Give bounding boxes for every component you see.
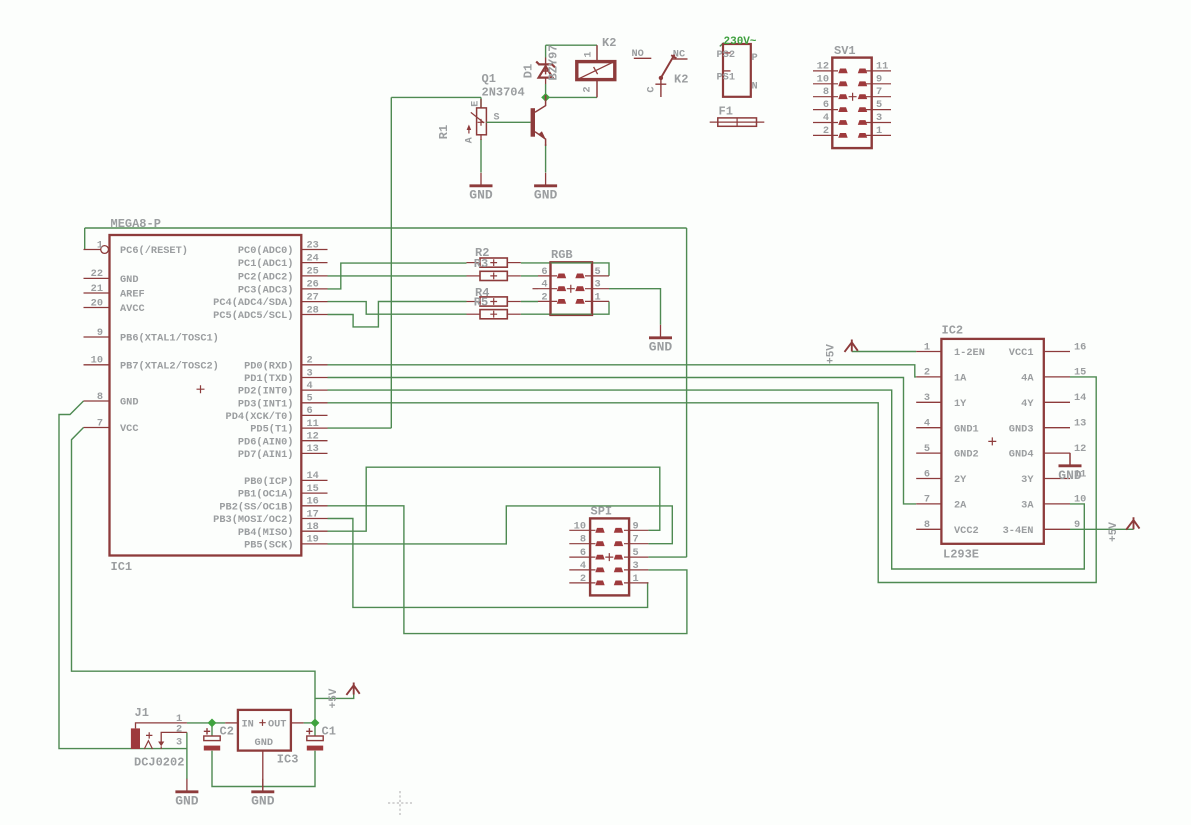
svg-text:230V~: 230V~	[724, 36, 757, 48]
svg-text:27: 27	[307, 291, 319, 303]
svg-text:K2: K2	[602, 36, 616, 50]
ground GND under R1	[480, 173, 482, 187]
sheet origin crosshair	[388, 791, 412, 815]
svg-text:OUT: OUT	[268, 718, 287, 730]
wire R4 output overlay on RGB bottom edge	[551, 313, 593, 315]
J1 switch contact triangle	[158, 742, 164, 747]
svg-text:5: 5	[595, 266, 601, 278]
svg-text:N: N	[752, 81, 758, 93]
svg-text:16: 16	[307, 496, 319, 508]
wire collector node horizontal to relay pin 2	[546, 96, 597, 98]
IC1 origin cross	[197, 385, 205, 393]
svg-text:22: 22	[91, 268, 103, 280]
svg-text:25: 25	[307, 266, 319, 278]
wire R4 output along RGB bottom to pin 1	[521, 301, 609, 314]
ground GND under Q1	[545, 173, 547, 187]
svg-text:VCC2: VCC2	[954, 525, 979, 537]
svg-text:GND2: GND2	[954, 449, 979, 461]
svg-text:PD6(AIN0): PD6(AIN0)	[238, 436, 294, 448]
svg-text:13: 13	[1074, 418, 1086, 430]
svg-text:Q1: Q1	[482, 72, 496, 86]
svg-text:BZY97: BZY97	[547, 44, 561, 80]
relay coil tick	[594, 67, 598, 74]
svg-text:VCC: VCC	[120, 423, 139, 435]
SPI origin cross	[605, 553, 613, 561]
svg-text:3: 3	[307, 367, 313, 379]
J1 origin cross	[146, 732, 152, 738]
IC3 OUT pin stub	[291, 722, 304, 724]
resistor R4	[467, 301, 481, 303]
svg-text:1: 1	[876, 125, 882, 137]
ground GND under J1	[186, 779, 188, 793]
svg-text:20: 20	[91, 297, 103, 309]
capacitor C2 plates	[204, 736, 220, 741]
svg-text:5: 5	[924, 443, 930, 455]
svg-text:VCC1: VCC1	[1009, 347, 1034, 359]
svg-text:PD2(INT0): PD2(INT0)	[238, 386, 294, 398]
svg-text:GND: GND	[534, 188, 558, 203]
svg-text:R1: R1	[437, 125, 451, 139]
wire RESET net top horizontal	[85, 227, 687, 229]
svg-text:PS1: PS1	[717, 72, 736, 84]
IC IC2 body	[941, 339, 1043, 544]
wire R2 output overlay on RGB top edge	[551, 262, 593, 264]
svg-text:DCJ0202: DCJ0202	[134, 756, 184, 770]
RGB origin cross	[567, 285, 575, 293]
svg-text:7: 7	[97, 417, 103, 429]
svg-text:9: 9	[97, 327, 103, 339]
K2 switch armature	[661, 55, 677, 78]
svg-text:GND: GND	[120, 274, 139, 286]
junction dot OUT/C1/+5V node	[311, 719, 320, 728]
svg-text:PC6(/RESET): PC6(/RESET)	[120, 245, 188, 257]
wire RESET net vertical to SPI pin 5	[686, 228, 688, 557]
R1 origin cross	[478, 119, 485, 126]
PS pin PS1 tick	[723, 70, 731, 72]
svg-text:3: 3	[176, 736, 182, 748]
wire PC2 net pin 25 to R3	[328, 275, 467, 277]
relay pin 2 lead	[596, 81, 598, 98]
wire PB3 net to SPI pin 1	[328, 519, 649, 608]
svg-text:2: 2	[823, 125, 829, 137]
svg-text:GND4: GND4	[1009, 449, 1034, 461]
IC3 IN pin stub	[225, 722, 238, 724]
svg-text:PB1(OC1A): PB1(OC1A)	[238, 489, 294, 501]
svg-text:11: 11	[876, 60, 888, 72]
wire RESET net into SPI pin 5	[648, 556, 686, 558]
svg-text:D1: D1	[522, 64, 536, 78]
capacitor C1 plates	[307, 736, 323, 741]
svg-text:24: 24	[307, 252, 319, 264]
svg-text:18: 18	[307, 521, 319, 533]
connector J1 pin 2 lead	[161, 732, 187, 741]
K2 switch NO terminal	[634, 57, 652, 59]
resistor R2	[467, 262, 481, 264]
svg-text:1A: 1A	[954, 373, 967, 385]
wire C2 top lead	[211, 723, 213, 736]
svg-text:3: 3	[633, 560, 639, 572]
svg-text:J1: J1	[135, 706, 149, 720]
svg-text:A: A	[465, 137, 476, 143]
J1 center-pin contact	[144, 741, 152, 749]
svg-text:3A: 3A	[1021, 500, 1034, 512]
svg-text:2A: 2A	[954, 500, 967, 512]
svg-text:1: 1	[924, 341, 930, 353]
svg-text:+5V: +5V	[826, 344, 838, 364]
svg-text:7: 7	[876, 86, 882, 98]
svg-text:1: 1	[595, 291, 601, 303]
wire R2 output along RGB top to pin 5	[521, 263, 609, 276]
svg-text:+5V: +5V	[1108, 522, 1120, 542]
svg-text:SPI: SPI	[591, 505, 613, 519]
svg-text:AVCC: AVCC	[120, 303, 145, 315]
wire +5V branch at regulator	[315, 694, 354, 698]
svg-text:PD4(XCK/T0): PD4(XCK/T0)	[226, 411, 294, 423]
svg-text:4A: 4A	[1021, 373, 1034, 385]
svg-text:GND: GND	[251, 794, 275, 809]
svg-text:5: 5	[633, 547, 639, 559]
svg-text:IC1: IC1	[111, 560, 133, 574]
power +5V at IC2 pin 1	[845, 340, 858, 352]
svg-text:3: 3	[924, 392, 930, 404]
junction dot C2/IN node	[208, 719, 217, 728]
svg-text:L293E: L293E	[943, 548, 979, 562]
connector SPI box	[590, 518, 629, 595]
svg-text:3Y: 3Y	[1021, 474, 1034, 486]
IC2 pin stubs	[916, 351, 941, 353]
svg-text:23: 23	[307, 239, 319, 251]
svg-text:GND: GND	[175, 794, 199, 809]
wire PB5 net to SPI pin 7	[328, 506, 673, 544]
svg-text:8: 8	[97, 391, 103, 403]
svg-text:4: 4	[924, 418, 930, 430]
svg-text:4Y: 4Y	[1021, 398, 1034, 410]
svg-text:5: 5	[876, 99, 882, 111]
svg-text:9: 9	[876, 73, 882, 85]
IC U1 MEGA8-P body and pin stubs	[110, 235, 302, 556]
transistor Q1 base bar	[531, 108, 535, 137]
svg-text:GND: GND	[255, 737, 274, 749]
C2 polarity mark	[204, 728, 210, 734]
svg-text:4: 4	[580, 560, 586, 572]
wire T1 net vertical riser	[390, 97, 392, 428]
svg-text:C1: C1	[322, 725, 336, 739]
IC2 pin 12 ground lead	[1069, 453, 1071, 465]
svg-text:PD7(AIN1): PD7(AIN1)	[238, 449, 294, 461]
svg-text:PB6(XTAL1/TOSC1): PB6(XTAL1/TOSC1)	[120, 333, 219, 345]
connector SV1 box	[832, 58, 871, 149]
R1 wiper diagonal	[471, 112, 484, 123]
wire T1 net to R1 top	[391, 96, 481, 98]
relay pin 1 lead	[596, 45, 598, 61]
svg-text:26: 26	[307, 279, 319, 291]
svg-text:8: 8	[924, 519, 930, 531]
svg-text:GND1: GND1	[954, 423, 979, 435]
svg-text:3-4EN: 3-4EN	[1003, 525, 1034, 537]
wire R1 E pin drop	[480, 97, 482, 108]
svg-text:1: 1	[583, 51, 595, 57]
IC3 GND pin lead	[262, 751, 264, 791]
wire 230V~ stub at PS connector	[720, 43, 724, 47]
PS pin PS2 tick	[723, 52, 731, 54]
svg-text:15: 15	[1074, 367, 1086, 379]
svg-text:10: 10	[1074, 494, 1086, 506]
connector J1 barrel	[131, 728, 140, 749]
ground GND at RGB pin 3	[660, 325, 662, 339]
svg-text:K2: K2	[674, 73, 688, 87]
svg-text:8: 8	[580, 534, 586, 546]
svg-text:F1: F1	[719, 105, 733, 119]
wire C2 bottom to ground rail	[212, 751, 315, 787]
svg-text:NO: NO	[632, 48, 644, 60]
wire RESET net riser from IC1 pin 1	[84, 228, 86, 250]
relay coil K2 box	[577, 62, 615, 80]
svg-text:13: 13	[307, 443, 319, 455]
svg-text:2Y: 2Y	[954, 474, 967, 486]
R1 arrow	[468, 128, 470, 134]
svg-text:PD5(T1): PD5(T1)	[250, 424, 293, 436]
K2 switch C terminal	[655, 78, 666, 97]
svg-text:4: 4	[823, 112, 829, 124]
svg-text:1: 1	[97, 239, 103, 251]
svg-text:R5: R5	[474, 295, 488, 309]
svg-text:15: 15	[307, 483, 319, 495]
svg-text:RGB: RGB	[551, 248, 573, 262]
svg-text:NC: NC	[673, 49, 685, 61]
power +5V at regulator output	[346, 683, 359, 695]
IC2 origin cross	[988, 437, 996, 445]
svg-text:8: 8	[823, 86, 829, 98]
D1 origin cross	[542, 68, 549, 75]
svg-text:PC2(ADC2): PC2(ADC2)	[238, 272, 294, 284]
Q1 emitter arrowhead	[539, 131, 546, 139]
wire Q1 emitter to GND	[545, 144, 547, 173]
svg-text:12: 12	[307, 431, 319, 443]
wire Q1 base net	[486, 121, 530, 123]
wire PD1 net to IC2 2A	[328, 378, 917, 504]
svg-text:1Y: 1Y	[954, 398, 967, 410]
svg-text:PB2(SS/OC1B): PB2(SS/OC1B)	[219, 501, 293, 513]
wire PC5 net pin 28 to R5 (upper box)	[328, 302, 467, 327]
K2 switch pivot dot	[659, 76, 663, 80]
resistor R3	[467, 275, 481, 277]
svg-text:12: 12	[817, 60, 829, 72]
wire RGB pin 3 to ground	[609, 289, 661, 325]
svg-text:21: 21	[91, 283, 103, 295]
wire T1 net from IC1 pin 11	[328, 427, 392, 429]
diode D1 triangle	[539, 66, 553, 77]
svg-text:1-2EN: 1-2EN	[954, 347, 985, 359]
connector J1 pin 1 lead	[136, 723, 187, 729]
svg-text:2: 2	[176, 724, 182, 736]
svg-text:GND: GND	[120, 397, 139, 409]
svg-text:2: 2	[582, 86, 594, 92]
relay coil diagonal	[577, 61, 615, 79]
wire GND net from IC1 pin 8	[59, 401, 187, 749]
svg-text:11: 11	[307, 418, 319, 430]
wire +5V stub at IC2 pin 9	[1133, 528, 1135, 529]
svg-text:IC3: IC3	[277, 753, 299, 767]
svg-text:16: 16	[1074, 341, 1086, 353]
svg-text:PS2: PS2	[717, 49, 736, 61]
wire IC2 pin 9 to +5V	[1070, 528, 1134, 530]
connector RGB box	[551, 262, 593, 315]
wire J1 pin 1 to IC3 IN	[187, 722, 225, 724]
resistor R1 body	[477, 108, 487, 135]
fuse F1 box	[718, 118, 757, 126]
SPI pin rows and pads	[569, 529, 595, 531]
svg-text:PB5(SCK): PB5(SCK)	[244, 540, 293, 552]
Q1 emitter lead	[535, 132, 546, 146]
svg-text:2: 2	[580, 573, 586, 585]
svg-text:E: E	[471, 101, 482, 107]
R1 A pin stub	[480, 135, 482, 140]
wire PD2 net to IC2 3A	[328, 390, 1085, 569]
svg-text:PB0(ICP): PB0(ICP)	[244, 476, 293, 488]
svg-text:P: P	[752, 52, 758, 64]
svg-text:7: 7	[633, 534, 639, 546]
svg-text:C2: C2	[220, 725, 234, 739]
svg-text:PD3(INT1): PD3(INT1)	[238, 398, 294, 410]
svg-text:IC2: IC2	[942, 324, 964, 338]
wire top link D1 to relay pin 1	[546, 44, 597, 46]
svg-text:AREF: AREF	[120, 289, 145, 301]
RGB pin rows and pads	[538, 275, 557, 277]
svg-text:3: 3	[876, 112, 882, 124]
svg-text:PD0(RXD): PD0(RXD)	[244, 360, 293, 372]
svg-text:9: 9	[633, 520, 639, 532]
svg-text:PC4(ADC4/SDA): PC4(ADC4/SDA)	[213, 297, 293, 309]
svg-text:12: 12	[1074, 443, 1086, 455]
svg-text:PC5(ADC5/SCL): PC5(ADC5/SCL)	[213, 310, 293, 322]
svg-text:6: 6	[307, 405, 313, 417]
svg-text:C: C	[646, 86, 658, 92]
svg-text:10: 10	[817, 73, 829, 85]
svg-text:14: 14	[307, 470, 319, 482]
svg-text:+5V: +5V	[328, 688, 340, 708]
svg-text:1: 1	[633, 573, 639, 585]
svg-text:7: 7	[924, 494, 930, 506]
svg-text:4: 4	[541, 279, 547, 291]
svg-text:PB3(MOSI/OC2): PB3(MOSI/OC2)	[213, 514, 293, 526]
svg-text:2: 2	[924, 367, 930, 379]
wire PC3 net from pin 26	[328, 263, 467, 289]
svg-text:2: 2	[541, 291, 547, 303]
fuse F1 center bar	[736, 118, 738, 126]
power +5V at IC2 pin 9	[1126, 517, 1139, 529]
K2 switch NC terminal	[673, 58, 688, 60]
connector PS box	[723, 44, 751, 97]
wire PB4 net to SPI pin 9	[328, 467, 660, 531]
resistor R5	[467, 313, 481, 315]
SV1 origin cross	[849, 93, 857, 101]
IC IC3 regulator body	[238, 710, 291, 751]
svg-text:SV1: SV1	[834, 44, 856, 58]
IC3 origin cross	[259, 720, 265, 726]
svg-text:PC3(ADC3): PC3(ADC3)	[238, 285, 294, 297]
wire C1 top lead	[314, 723, 316, 736]
svg-text:14: 14	[1074, 392, 1086, 404]
svg-text:3: 3	[595, 279, 601, 291]
svg-text:10: 10	[574, 520, 586, 532]
svg-text:28: 28	[307, 304, 319, 316]
svg-text:6: 6	[541, 266, 547, 278]
SV1 pin rows and pads	[813, 70, 838, 72]
wire PB2 net to SPI pin 3	[328, 506, 687, 634]
C1 polarity mark	[306, 728, 312, 734]
svg-text:6: 6	[924, 468, 930, 480]
fuse F1 through line	[710, 121, 765, 123]
wire R5 output to RGB pin 2	[521, 301, 538, 303]
D1 cathode stub	[545, 58, 547, 65]
svg-text:PC1(ADC1): PC1(ADC1)	[238, 258, 294, 270]
ground GND under IC3	[262, 779, 264, 793]
svg-text:GND: GND	[1058, 468, 1082, 483]
svg-text:2: 2	[307, 355, 313, 367]
wire +5V to IC2 pin 1	[852, 351, 916, 353]
wire PD0 net to IC2 1A	[328, 365, 917, 377]
wire J1 ground tie	[186, 732, 188, 779]
svg-text:2N3704: 2N3704	[482, 86, 525, 100]
svg-text:6: 6	[580, 547, 586, 559]
wire IC3 OUT to C1 node	[304, 722, 315, 724]
svg-text:GND: GND	[649, 340, 673, 355]
ground GND at IC2 pin 12	[1069, 453, 1071, 467]
svg-text:6: 6	[823, 99, 829, 111]
svg-text:MEGA8-P: MEGA8-P	[111, 217, 161, 231]
svg-text:PC0(ADC0): PC0(ADC0)	[238, 245, 294, 257]
D1 cathode bar	[536, 62, 555, 68]
wire D1 anode stub	[545, 84, 547, 97]
svg-text:4: 4	[307, 380, 313, 392]
wire D1 cathode to top	[545, 45, 547, 57]
wire PD3 net to IC2 4A	[328, 377, 1097, 583]
R1 E pin stub	[480, 99, 482, 108]
wire PC4 net pin 27 to R4 (lower box)	[328, 302, 467, 315]
svg-text:10: 10	[91, 355, 103, 367]
junction dot collector/D1/relay node	[541, 93, 550, 102]
svg-text:9: 9	[1074, 519, 1080, 531]
wire VCC net from IC1 pin 7	[72, 428, 316, 723]
svg-text:IN: IN	[242, 718, 254, 730]
svg-text:5: 5	[307, 393, 313, 405]
svg-text:GND3: GND3	[1009, 423, 1034, 435]
svg-text:17: 17	[307, 508, 319, 520]
D1 anode stub	[545, 77, 547, 84]
svg-text:PB4(MISO): PB4(MISO)	[238, 527, 294, 539]
svg-text:PD1(TXD): PD1(TXD)	[244, 373, 293, 385]
svg-text:PB7(XTAL2/TOSC2): PB7(XTAL2/TOSC2)	[120, 360, 219, 372]
wire R1 A pin to GND	[480, 139, 482, 173]
Q1 collector lead	[535, 95, 546, 112]
IC1 pin 1 inversion bubble	[101, 246, 109, 254]
wire R3 output to RGB pin 6	[521, 275, 538, 277]
svg-text:R3: R3	[474, 257, 488, 271]
svg-text:GND: GND	[469, 188, 493, 203]
svg-text:19: 19	[307, 534, 319, 546]
